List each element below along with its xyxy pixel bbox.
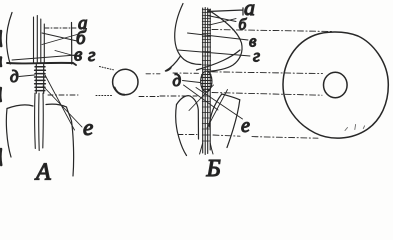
svg-text:г: г bbox=[88, 45, 95, 66]
svg-text:д: д bbox=[173, 71, 182, 90]
small circle cross-section (A) bbox=[113, 69, 138, 94]
figure A upper lobe bottom edge bbox=[7, 63, 76, 65]
dotted leader from g to small circle bbox=[100, 67, 114, 70]
svg-text:е: е bbox=[83, 115, 93, 140]
figure A lower lobe left contour bbox=[6, 109, 11, 158]
annulated bulge on stem (B) bbox=[201, 71, 212, 92]
annulated rings on stem (A) bbox=[35, 65, 46, 94]
leader dash-dot to label a (A) bbox=[45, 27, 76, 29]
figure A lower lobe right contour bbox=[67, 107, 74, 176]
dash-dot projection upper (B to inner circle) bbox=[146, 73, 160, 75]
dash-dot projection line lower (A to circle) bbox=[48, 94, 78, 96]
figure B right wing outer curve bbox=[209, 10, 243, 71]
leader lines to label b (A) bbox=[42, 33, 77, 45]
figure A stylets below rings bbox=[35, 93, 44, 150]
big circle cross-section (B) bbox=[283, 32, 388, 138]
figure B lower-right lobe top edge bbox=[222, 94, 240, 100]
leader from d to rings (A) bbox=[19, 75, 35, 77]
svg-text:А: А bbox=[34, 160, 51, 186]
leader lines to label b (B) bbox=[208, 16, 237, 26]
figure A upper lobe right edge bbox=[71, 23, 73, 65]
figure B lower-right lobe left edge bbox=[209, 94, 222, 127]
figure B stylet bundle hatching bbox=[202, 10, 210, 142]
figure B lower-right lobe right edge bbox=[227, 100, 240, 148]
page edge artifacts bbox=[0, 31, 1, 165]
svg-text:б: б bbox=[239, 17, 248, 34]
figure B lower-left lobe top and inner edge bbox=[177, 96, 199, 139]
small ticks inside big circle bbox=[345, 125, 365, 131]
figure B lower-left lobe outer contour bbox=[176, 105, 187, 156]
figure B stem bottom flare bbox=[200, 143, 213, 154]
svg-text:в: в bbox=[74, 45, 82, 66]
figure B stylet bundle verticals bbox=[203, 8, 211, 155]
figure B upper-left lobe lower tail hook bbox=[165, 56, 180, 71]
leader line to label v (A) bbox=[12, 51, 76, 61]
leader from d to bulge (B) bbox=[183, 81, 201, 83]
bracket to label a (B) bbox=[208, 8, 244, 15]
figure A stylet bundle upper verticals bbox=[34, 16, 45, 64]
figure A upper lobe left contour bbox=[6, 13, 12, 65]
svg-text:д: д bbox=[10, 67, 19, 86]
long dash-dot from B top to big circle top bbox=[212, 30, 333, 32]
leader lattice to label e (B) bbox=[184, 85, 243, 128]
svg-text:Б: Б bbox=[206, 156, 221, 182]
dash-dot from B bottom to big circle bottom bbox=[178, 134, 197, 136]
leader line to label v (B) bbox=[188, 33, 249, 40]
figure A lower lobe top edge bbox=[7, 104, 67, 108]
inner circle stylet cross-section (B) bbox=[324, 72, 348, 98]
svg-text:г: г bbox=[253, 46, 260, 66]
figure B upper-left lobe outer contour bbox=[175, 4, 201, 65]
leader lines to label e (A) bbox=[43, 75, 82, 130]
figure B right wing inner curve bbox=[197, 50, 241, 70]
leader line to label g (B) bbox=[178, 50, 250, 56]
dash-dot projection lower (B to inner circle) bbox=[160, 95, 197, 97]
svg-text:е: е bbox=[241, 115, 250, 137]
